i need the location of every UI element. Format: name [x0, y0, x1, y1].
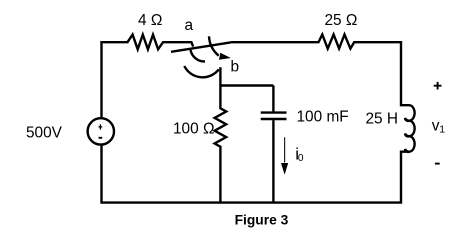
svg-text:1: 1 — [439, 123, 445, 135]
svg-text:a: a — [185, 17, 194, 34]
svg-text:25 Ω: 25 Ω — [325, 12, 358, 29]
svg-text:b: b — [231, 58, 240, 75]
svg-text:Figure 3: Figure 3 — [235, 212, 289, 227]
svg-text:0: 0 — [298, 153, 304, 164]
svg-text:500V: 500V — [26, 125, 63, 142]
svg-text:100 mF: 100 mF — [297, 109, 349, 126]
svg-text:25 H: 25 H — [366, 111, 399, 128]
svg-text:4 Ω: 4 Ω — [138, 12, 162, 29]
svg-text:100 Ω: 100 Ω — [173, 121, 214, 138]
